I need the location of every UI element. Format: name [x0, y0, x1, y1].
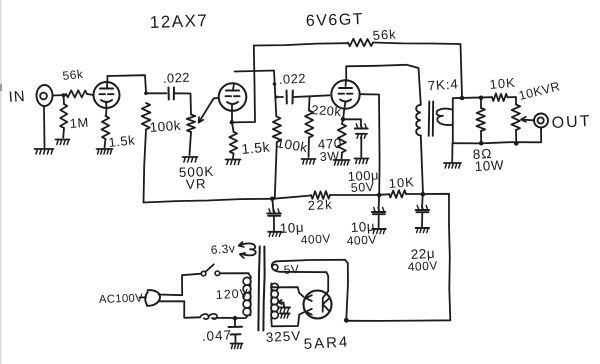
wire node to primary coil	[235, 316, 248, 319]
plug AC	[145, 290, 160, 306]
wire cathode 6V6	[343, 102, 345, 119]
node cathode2	[230, 120, 234, 124]
svg-text:OUT: OUT	[551, 113, 592, 132]
wire 5V bottom to filament	[327, 272, 329, 291]
capacitor 100u 50V	[347, 124, 379, 195]
node 8ohm top	[479, 96, 484, 101]
label 12AX7	[149, 11, 208, 32]
resistor 1M	[60, 95, 89, 131]
ground .047	[231, 344, 243, 349]
wire 1.5k to ground	[105, 139, 106, 148]
label AC100V	[99, 292, 146, 306]
rectifier 5AR4	[304, 291, 332, 319]
wire plate1 to cap	[146, 92, 167, 94]
transformer OT primary	[416, 105, 421, 136]
resistor 10K dropper	[388, 174, 415, 198]
wire fuse to primary	[222, 317, 235, 319]
svg-text:3W: 3W	[319, 149, 339, 164]
wire plug bottom prong	[159, 301, 200, 318]
svg-text:325V: 325V	[265, 328, 301, 345]
node NFB takeoff	[460, 96, 465, 101]
wire plate2 top	[235, 71, 277, 117]
ground 220k	[302, 159, 316, 164]
capacitor .047	[201, 318, 242, 344]
wire rail to 22k	[272, 196, 311, 199]
output jack J2	[534, 114, 548, 128]
wire 56k to tube grid	[87, 94, 94, 95]
ground input jack	[35, 149, 54, 154]
wire 100k2 to rail	[275, 142, 277, 198]
node stray plate2	[273, 82, 277, 86]
wire 10K out to VR	[508, 97, 517, 105]
svg-text:50V: 50V	[350, 180, 375, 195]
resistor 1.5k stage2	[229, 122, 271, 157]
node cap2 tap	[274, 95, 277, 98]
svg-text:10K: 10K	[388, 174, 415, 191]
resistor 220k grid	[305, 96, 342, 137]
capacitor 10u 400V first	[267, 199, 331, 247]
wire VR2 bottom	[515, 130, 517, 143]
svg-text:400V: 400V	[346, 232, 377, 248]
wire out jack down	[540, 128, 542, 143]
resistor 22k	[307, 191, 333, 213]
capacitor 22u 400V	[407, 194, 438, 274]
wire out top rail	[453, 97, 492, 98]
svg-text:1M: 1M	[69, 115, 89, 131]
resistor 10K output	[489, 75, 516, 101]
svg-text:AC100V: AC100V	[99, 292, 144, 306]
label 325V	[265, 328, 301, 345]
ground 500K VR	[183, 157, 198, 162]
center tap arrow	[278, 300, 284, 306]
wire cathode2 down	[231, 104, 233, 122]
transformer OT core	[429, 102, 434, 136]
triode U1b 12AX7	[219, 83, 247, 111]
wire VR to ground	[190, 132, 192, 155]
wire 1.5k2 to ground	[232, 154, 235, 159]
label 6.3V	[210, 241, 236, 257]
svg-text:56k: 56k	[62, 67, 85, 83]
resistor 56k NFB	[348, 26, 397, 46]
ground cathode1	[97, 149, 113, 154]
wire plate 6V6	[346, 65, 421, 105]
resistor 56k input	[62, 67, 87, 98]
wire output ground	[451, 143, 453, 161]
wire switch to primary	[220, 273, 251, 277]
svg-text:12AX7: 12AX7	[149, 11, 208, 32]
ground 100u	[355, 159, 369, 164]
potentiometer 10KVR	[512, 79, 562, 130]
ground 470	[334, 160, 350, 165]
wire 220k to ground	[308, 138, 311, 158]
node screen rail	[377, 193, 382, 198]
svg-text:VR: VR	[186, 176, 207, 192]
wire 5V top to B+	[345, 260, 348, 320]
capacitor 10u 400V second	[346, 195, 385, 248]
wire 22k to screen node	[330, 194, 379, 196]
fuse F1	[200, 314, 222, 319]
transformer PT HV winding	[271, 283, 278, 318]
potentiometer 500K VR	[179, 115, 215, 192]
ground 1M	[56, 140, 70, 145]
wire 8ohm bottom	[480, 131, 482, 143]
svg-text:5V: 5V	[283, 262, 300, 277]
triode U1a 12AX7	[94, 76, 120, 108]
resistor 8ohm	[472, 98, 504, 174]
svg-text:6.3v: 6.3v	[210, 241, 236, 257]
wire jack to R 56k	[53, 94, 67, 97]
wire plate1 top	[108, 75, 147, 92]
node B+ main	[421, 192, 426, 197]
wire 100u to ground	[360, 136, 362, 157]
svg-text:1.5k: 1.5k	[108, 132, 136, 150]
svg-text:100k: 100k	[149, 118, 181, 135]
wire 100k1 to rail	[144, 130, 147, 203]
wiper arrow 10KVR	[521, 117, 534, 122]
svg-text:10W: 10W	[474, 157, 504, 174]
svg-text:22k: 22k	[307, 197, 333, 213]
wire HV top to plate	[271, 284, 303, 297]
label 6V6GT	[306, 11, 365, 30]
node AC bottom	[233, 316, 238, 321]
svg-text:.047: .047	[201, 327, 232, 344]
wire NFB cathode to top	[232, 46, 255, 123]
winding 5V	[272, 260, 345, 272]
wire cathode to 100u	[343, 119, 361, 126]
svg-text:6V6GT: 6V6GT	[306, 11, 365, 30]
pentode 6V6	[331, 80, 359, 108]
svg-text:56k: 56k	[372, 26, 397, 43]
wire plate2 to cap2	[276, 96, 283, 98]
wire out bottom rail	[453, 142, 541, 143]
resistor 470 3W	[317, 119, 346, 164]
wire HV bottom to plate	[271, 312, 304, 326]
wire cap1 to VR	[175, 93, 192, 114]
label 5AR4	[303, 334, 349, 353]
svg-text:.022: .022	[278, 71, 306, 87]
node plate1	[144, 91, 148, 95]
transformer PT core	[258, 247, 264, 331]
input jack J1	[37, 85, 53, 106]
wire 470 to ground	[341, 153, 344, 159]
svg-text:IN: IN	[8, 88, 26, 106]
switch SW1	[201, 264, 219, 276]
ground cathode2	[226, 160, 241, 165]
label 120V	[215, 286, 249, 302]
node VR2 bottom	[514, 141, 519, 146]
capacitor .022 first	[162, 70, 190, 100]
wire top rail left	[254, 43, 348, 45]
wire secondary bus	[452, 99, 454, 143]
wire screen 6V6	[361, 94, 380, 194]
node 8ohm bottom	[479, 141, 484, 146]
node grid1 junction	[62, 93, 66, 97]
svg-text:7K:4: 7K:4	[427, 76, 459, 93]
resistor 100k stage2	[273, 117, 313, 157]
ground output	[444, 163, 461, 168]
node rectifier output	[344, 318, 349, 323]
node cathode 6V6	[341, 117, 345, 121]
winding 6.3V arrows	[239, 242, 256, 258]
wire OT primary bottom	[421, 136, 423, 194]
transformer PT primary	[243, 277, 251, 315]
transformer OT secondary	[437, 109, 453, 125]
wire plug top prong	[159, 274, 202, 296]
wire jack to ground	[43, 106, 46, 148]
label OUT	[551, 113, 592, 132]
node rail preamp	[270, 197, 275, 202]
wiper arrow 500K	[199, 99, 214, 123]
svg-text:10K: 10K	[489, 75, 516, 92]
wire B+ rail left	[144, 199, 273, 203]
svg-text:.022: .022	[162, 70, 190, 86]
capacitor .022 second	[278, 71, 306, 104]
svg-text:400V: 400V	[407, 258, 438, 274]
ground center tap	[279, 308, 290, 319]
svg-text:400V: 400V	[300, 231, 331, 247]
wire 10K to B+ node	[406, 193, 423, 195]
label IN	[8, 88, 26, 106]
svg-text:5AR4: 5AR4	[303, 334, 349, 353]
wire 1M to ground	[62, 128, 65, 138]
resistor 100k stage1	[142, 103, 182, 135]
label 7K:4	[427, 76, 459, 93]
resistor 1.5k stage1	[102, 103, 136, 150]
wire grid2	[214, 97, 219, 99]
wire top rail right	[373, 43, 462, 98]
label 5V	[283, 262, 300, 277]
wire B+ node to rectifier	[347, 194, 450, 321]
svg-text:1.5k: 1.5k	[241, 139, 271, 157]
wire rail to 10K	[379, 193, 389, 196]
svg-text:220k: 220k	[311, 102, 342, 119]
wire cap2 to grid 6V6	[293, 95, 330, 97]
